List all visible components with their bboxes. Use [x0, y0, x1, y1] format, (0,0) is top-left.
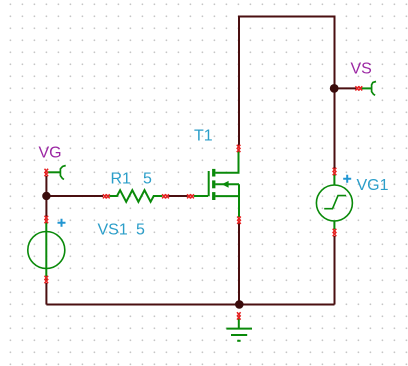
pin VG claw — [60, 166, 65, 180]
junction node VS — [330, 84, 339, 93]
svg-text:5: 5 — [143, 170, 152, 187]
ground bar 1 — [226, 328, 252, 330]
wire gate lead — [194, 195, 208, 197]
pin marker drain — [237, 145, 241, 149]
generator VG1 bottom lead — [333, 221, 335, 229]
pin marker gate — [187, 194, 191, 198]
svg-text:T1: T1 — [194, 128, 213, 145]
pin marker VG1 bottom — [333, 229, 337, 233]
junction node bottom — [235, 300, 244, 309]
transistor T1 channel stub source — [212, 192, 215, 200]
svg-text:VG1: VG1 — [357, 177, 389, 194]
wire VS1 bottom — [45, 283, 47, 305]
wire mosfet source down — [238, 223, 240, 305]
wire R1 to gate — [169, 195, 188, 197]
transistor T1 drain lead — [215, 151, 238, 173]
voltage source VS1 internal bar — [45, 220, 47, 281]
ground stem — [238, 318, 240, 328]
pin marker VS node — [355, 86, 359, 90]
pin marker VS1 bottom — [45, 276, 49, 280]
pin marker ground — [237, 312, 241, 316]
ground bar 3 — [237, 340, 240, 342]
generator VG1 top lead — [333, 175, 335, 186]
pin VG lead — [48, 171, 60, 173]
pin VS claw — [372, 82, 376, 96]
wire bottom rail — [46, 304, 334, 306]
transistor T1 gate bar — [208, 171, 210, 196]
svg-text:VG: VG — [39, 145, 62, 162]
svg-text:VS1: VS1 — [98, 221, 128, 238]
svg-text:5: 5 — [136, 221, 145, 238]
generator VG1 waveform — [324, 196, 346, 209]
generator VG1 plus sign — [343, 175, 351, 183]
transistor T1 channel stub body — [212, 180, 215, 188]
junction node VG — [42, 192, 50, 200]
wire left vertical VG to VS1 — [45, 176, 47, 217]
wire VS stub — [335, 87, 357, 89]
ground bar 2 — [231, 334, 247, 336]
voltage source VS1 plus sign — [58, 219, 66, 227]
pin marker VG1 top — [333, 168, 337, 172]
pin marker source — [237, 217, 241, 221]
wire VG1 bottom — [334, 236, 336, 305]
voltage source VS1 circle — [28, 232, 65, 269]
transistor T1 body arrow — [222, 181, 229, 188]
pin marker VS1 top — [45, 216, 49, 220]
pin marker R1 right — [162, 194, 166, 198]
pin VS lead — [362, 87, 372, 89]
svg-text:R1: R1 — [111, 170, 132, 187]
transistor T1 channel stub drain — [212, 169, 215, 177]
transistor T1 source lead — [215, 184, 239, 217]
wire drain-top-right loop — [239, 17, 335, 169]
wire junction to R1 — [46, 195, 103, 197]
pin marker VG node — [45, 169, 49, 173]
generator VG1 circle — [316, 185, 352, 221]
resistor R1 — [109, 190, 162, 202]
transistor T1 body line — [215, 183, 239, 185]
pin marker R1 left — [103, 194, 107, 198]
svg-text:VS: VS — [351, 61, 372, 78]
